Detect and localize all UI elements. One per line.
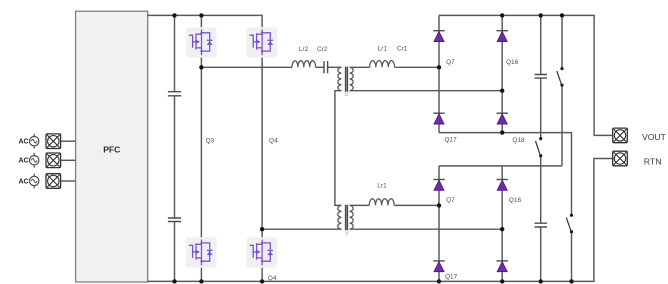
wire: top rail left [148, 15, 262, 27]
wire: bottom bus to RTN [148, 159, 613, 282]
junction bus / lower bridge left leg [437, 279, 441, 283]
transformer T1 primary winding [338, 205, 342, 229]
wire: T2 primary return to T1 [335, 91, 342, 206]
svg-text:AC: AC [19, 178, 29, 185]
wire: upper bridge left leg [438, 15, 440, 132]
port VOUT [613, 128, 628, 143]
svg-text:1f: 1f [345, 231, 350, 236]
wire: T1 primary bottom to phase2 node [262, 228, 341, 230]
AC port 3 [46, 174, 61, 189]
wire: T2 secondary top to Lr1 [350, 66, 370, 68]
wire: lower bridge left leg [438, 166, 440, 282]
wire Lr1 to bridge node [395, 66, 439, 68]
junction bus / output cap chain [539, 279, 543, 283]
junction bus / switch S3 branch [569, 279, 573, 283]
wire Cr2 to transformer [328, 66, 342, 68]
node phase1 mid [199, 65, 203, 69]
svg-text:Cr1: Cr1 [397, 45, 408, 52]
capacitor output lower [535, 223, 548, 227]
capacitor bulk bottom [168, 218, 181, 222]
AC source 1 [30, 134, 39, 149]
svg-text:AC: AC [19, 139, 29, 146]
node upper bridge AC left [437, 65, 441, 69]
svg-text:PFC: PFC [103, 144, 120, 154]
junction bus / Q4 leg [260, 279, 264, 283]
wire: top rail right to VOUT [439, 15, 613, 135]
svg-text:Q16: Q16 [506, 59, 519, 66]
junction top rail / right bridge leg [500, 13, 504, 17]
node phase2 mid [260, 227, 264, 231]
wire: phase1 vertical [200, 58, 202, 282]
wire: phase1 output [201, 66, 292, 68]
wire AC3 to PFC [61, 180, 76, 182]
transformer T2 secondary winding [350, 67, 354, 90]
junction bus / Q3 leg [199, 279, 203, 283]
svg-text:Cr2: Cr2 [317, 46, 328, 53]
junction upper bridge bottom rail [500, 130, 504, 134]
transistor Q4 bottom tile [247, 237, 278, 267]
junction top rail / switch S1 branch [560, 13, 564, 17]
svg-text:RTN: RTN [644, 156, 662, 166]
AC source 2 [30, 153, 39, 168]
svg-text:Q7: Q7 [446, 197, 455, 204]
switch S2 [536, 137, 543, 157]
capacitor bulk top [168, 92, 181, 96]
diode Q7 upper [433, 31, 444, 42]
wire: phase2 vertical [261, 58, 263, 282]
wire: T1 secondary bottom to bridge [350, 228, 503, 230]
wire: lower bridge top rail to switch1 [439, 15, 562, 166]
wire: drop to Q3 fet [200, 15, 202, 27]
wire AC1 to PFC [61, 140, 76, 142]
wire Lr1 lower to bridge node [394, 204, 439, 206]
capacitor Cr2 [324, 61, 328, 73]
AC port 2 [46, 153, 61, 168]
svg-text:Q7: Q7 [446, 59, 455, 66]
svg-text:Lr1: Lr1 [377, 182, 387, 189]
transformer T1 secondary winding [350, 205, 354, 229]
switch S1 [557, 67, 564, 87]
inductor Lr2 [292, 61, 316, 68]
wire AC2 to PFC [61, 159, 76, 161]
port RTN [613, 151, 628, 166]
svg-text:AC: AC [19, 158, 29, 165]
transistor Q3 bottom tile [186, 237, 217, 267]
diode lower right [497, 261, 508, 272]
transistor Q3 top tile [186, 27, 217, 57]
svg-text:Lr2: Lr2 [299, 46, 309, 53]
transformer T1 core [346, 205, 348, 231]
inductor Lr1 upper [370, 61, 395, 68]
diode Q16 upper [497, 31, 508, 42]
wire: bulk cap chain [174, 15, 176, 281]
wire Lr2 to Cr2 [316, 66, 324, 68]
diode Q16 lower [497, 180, 508, 191]
svg-text:Q17: Q17 [445, 137, 458, 144]
svg-text:Lr1: Lr1 [378, 45, 388, 52]
diode Q18 upper [497, 113, 508, 124]
node upper bridge AC right [500, 89, 504, 93]
PFC block [76, 11, 148, 282]
AC source 3 [30, 174, 39, 189]
node lower bridge AC right [500, 227, 504, 231]
svg-text:1f: 1f [345, 92, 350, 97]
wire: T2 secondary bottom to bridge [350, 90, 503, 92]
transformer T2 core [346, 67, 348, 92]
wire: T1 secondary top to Lr1 lower [350, 204, 370, 206]
wire: lower bridge right leg [501, 166, 503, 282]
node lower bridge AC left [437, 203, 441, 207]
transistor Q4 top tile [247, 27, 278, 57]
svg-text:Q16: Q16 [509, 197, 522, 204]
diode Q17 lower [433, 261, 444, 272]
switch S3 [566, 214, 573, 234]
diode Q7 lower [433, 180, 444, 191]
AC port 1 [46, 134, 61, 149]
junction bus / lower bridge right leg [500, 279, 504, 283]
junction top rail / bulk cap [172, 13, 176, 17]
capacitor output upper [535, 75, 548, 79]
junction top rail / Q3 leg [199, 13, 203, 17]
wire: upper bridge right leg [501, 15, 503, 132]
transformer T2 primary winding [338, 67, 342, 90]
junction top rail / output cap chain [539, 13, 543, 17]
wire: output cap chain [540, 15, 542, 281]
svg-text:Q3: Q3 [206, 138, 215, 145]
wire: upper bridge bottom rail to switch3 chain [439, 133, 572, 282]
diode Q17 upper [433, 113, 444, 124]
svg-text:Q18: Q18 [512, 137, 525, 144]
inductor Lr1 lower [369, 199, 394, 206]
svg-text:VOUT: VOUT [642, 132, 667, 142]
svg-text:Q4: Q4 [269, 138, 278, 145]
junction bus / bulk cap [172, 279, 176, 283]
svg-text:Q17: Q17 [445, 273, 458, 280]
